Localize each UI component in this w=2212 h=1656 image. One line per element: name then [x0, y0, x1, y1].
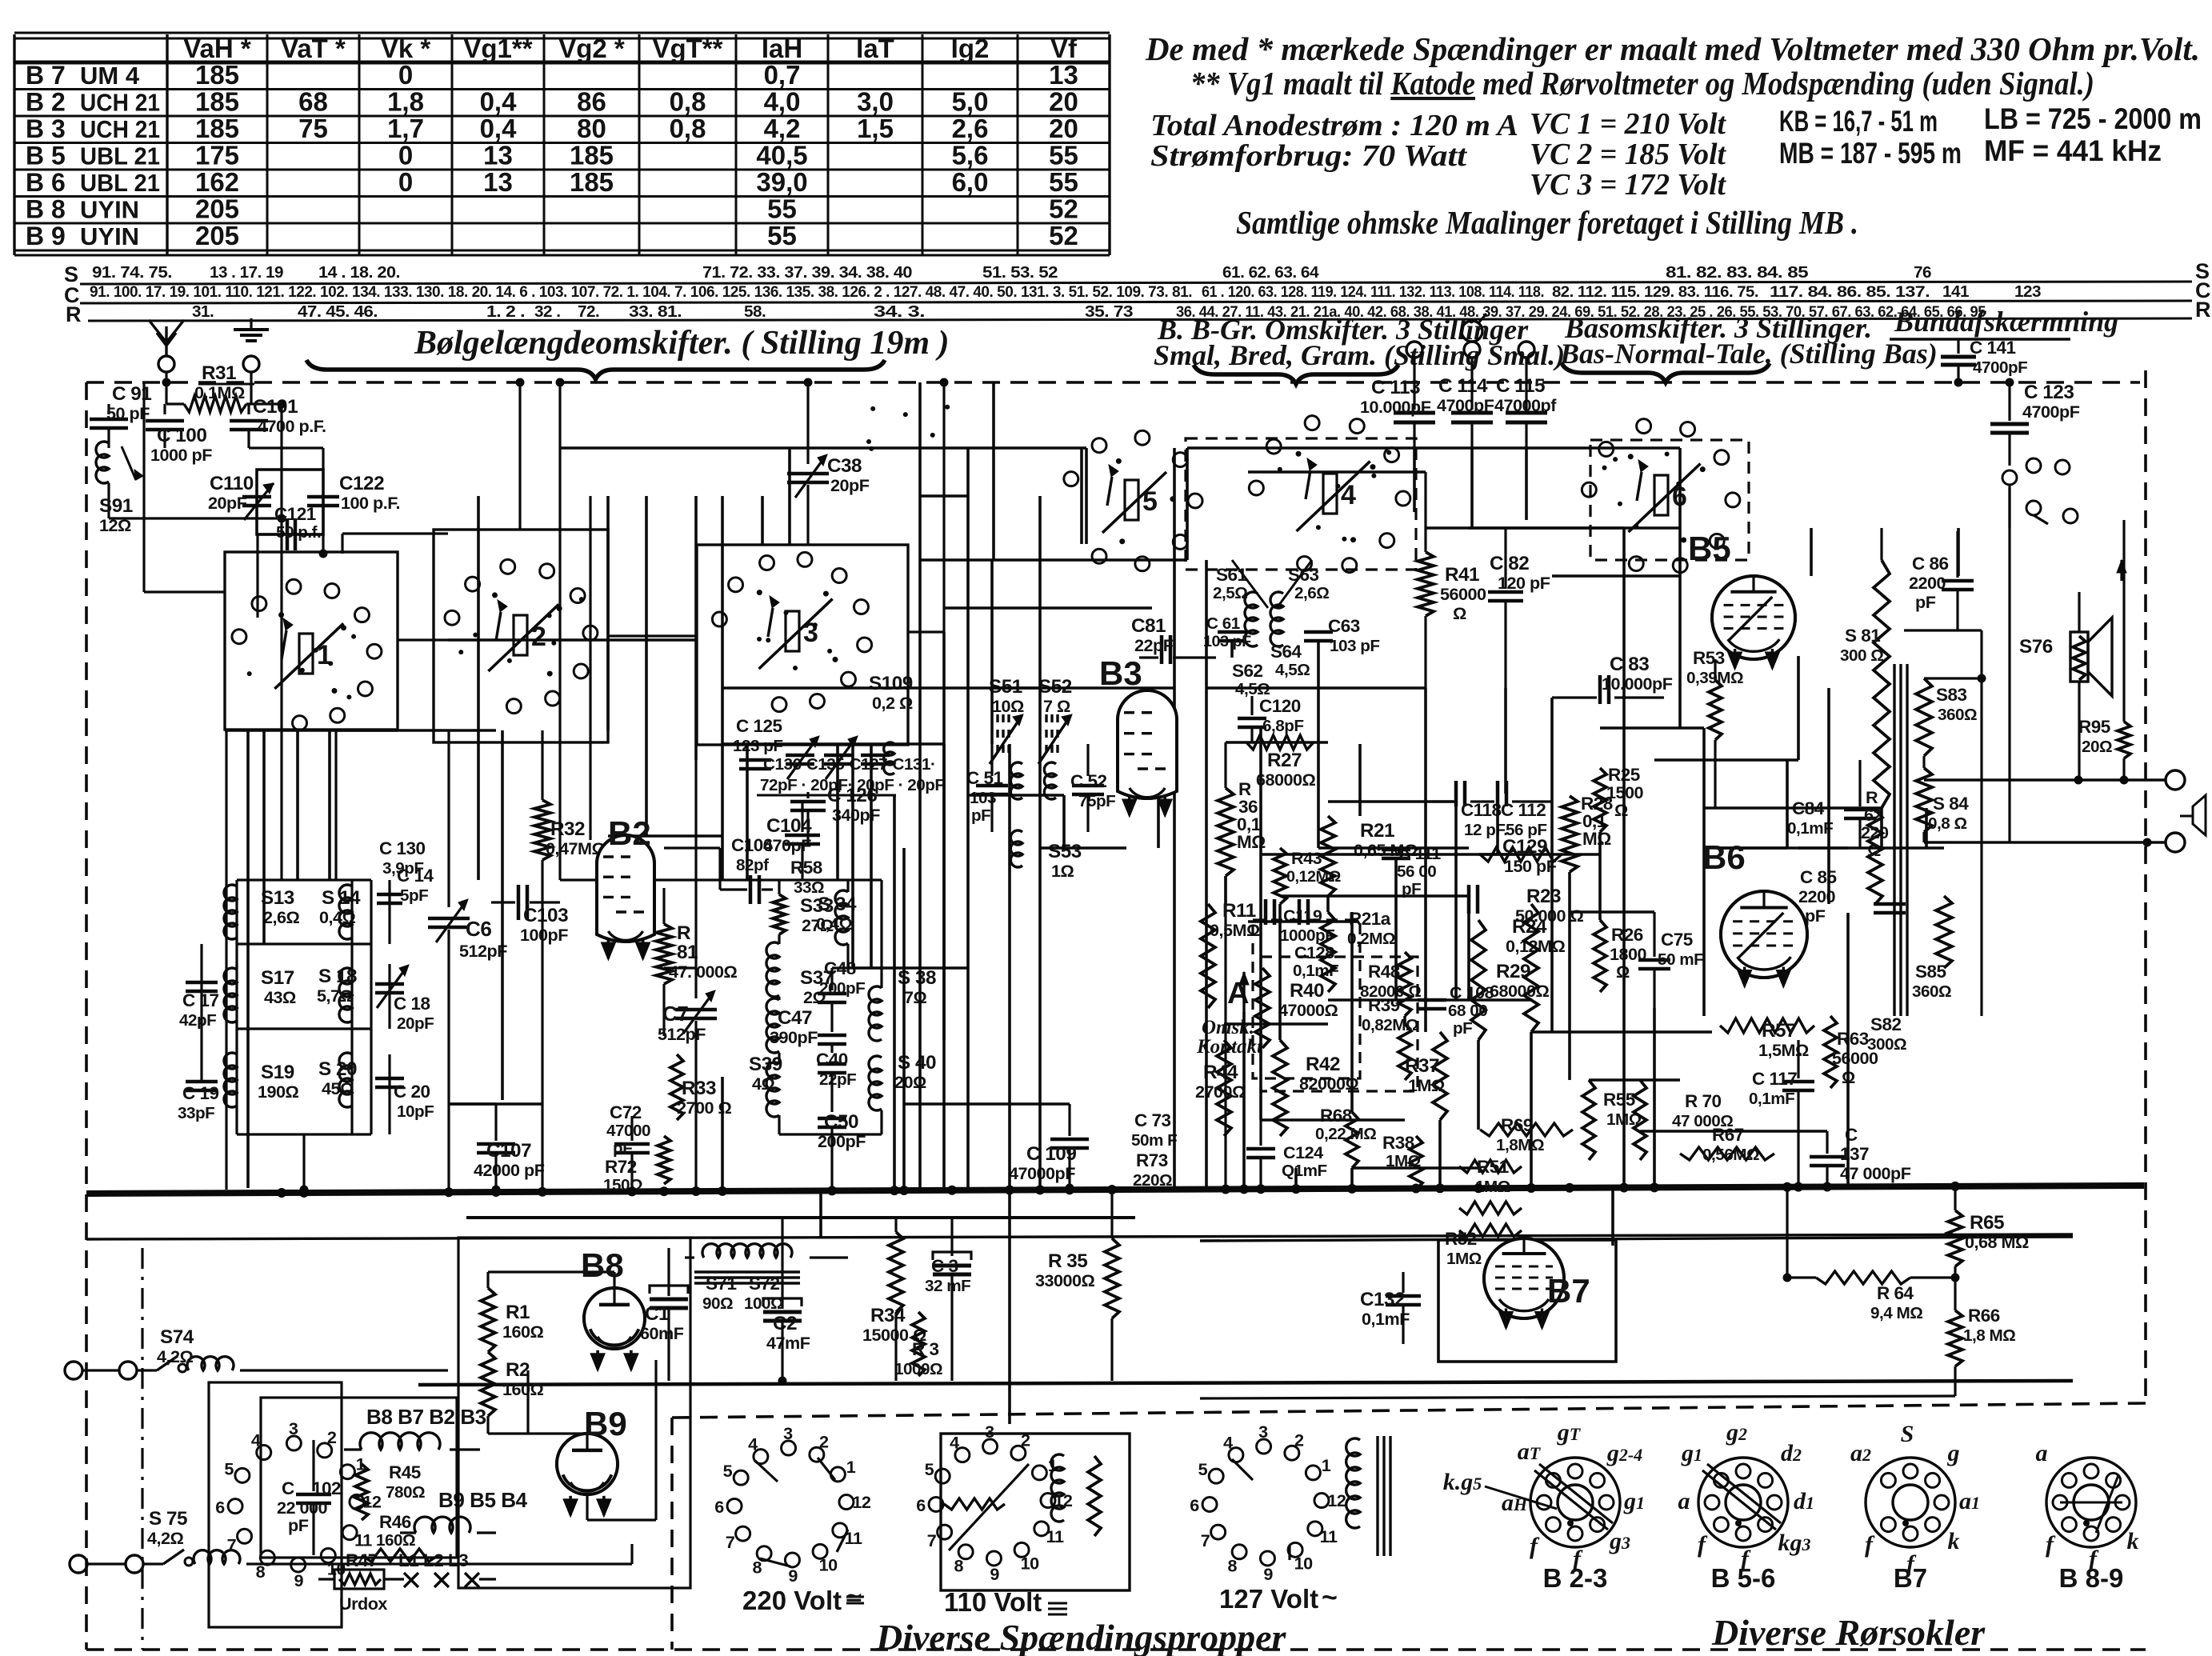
svg-text:32 .: 32 .: [534, 302, 561, 321]
svg-text:R27: R27: [1267, 750, 1302, 771]
svg-text:3: 3: [289, 1418, 298, 1438]
svg-text:R26: R26: [1611, 925, 1643, 945]
wire: [1318, 846, 1469, 850]
svg-text:0,2MΩ: 0,2MΩ: [1347, 930, 1395, 948]
resistor R45: [355, 1464, 368, 1520]
svg-text:R11: R11: [1222, 900, 1256, 922]
wire: [1173, 688, 1176, 1190]
wire: [1552, 574, 1680, 578]
wire: [448, 1102, 496, 1106]
wire: [1261, 1118, 1405, 1122]
coil S33: [766, 942, 779, 997]
svg-text:S91: S91: [99, 495, 133, 517]
gram input terminals: [1462, 321, 1482, 342]
svg-text:8: 8: [752, 1558, 762, 1578]
svg-text:160Ω: 160Ω: [502, 1379, 544, 1399]
wire: [1925, 808, 1928, 848]
wire: [144, 590, 225, 593]
svg-text:123: 123: [2014, 282, 2041, 301]
svg-text:31.: 31.: [192, 302, 214, 321]
svg-text:13: 13: [483, 167, 513, 197]
capacitor C1: [650, 1298, 688, 1302]
svg-text:60mF: 60mF: [640, 1323, 684, 1343]
svg-text:UM 4: UM 4: [80, 62, 140, 90]
tube B6: [1721, 891, 1807, 978]
coil S38: [869, 986, 882, 1041]
svg-text:R63: R63: [1837, 1029, 1869, 1049]
svg-text:4,5Ω: 4,5Ω: [1275, 661, 1310, 679]
resistor R33: [670, 1054, 683, 1120]
svg-text:pF: pF: [1915, 592, 1936, 612]
svg-text:10: 10: [819, 1554, 838, 1574]
svg-text:1,8: 1,8: [387, 87, 424, 117]
svg-text:R51: R51: [1477, 1157, 1509, 1177]
svg-text:R21: R21: [1360, 820, 1394, 842]
svg-text:81. 82. 83. 84. 85: 81. 82. 83. 84. 85: [1666, 263, 1808, 282]
coil S34: [835, 890, 848, 945]
wire: [1038, 496, 1042, 688]
svg-text:6: 6: [714, 1497, 724, 1517]
svg-text:** Vg1 maalt til Katode med Rø: ** Vg1 maalt til Katode med Rørvoltmeter…: [1190, 65, 2094, 102]
wire: [486, 1272, 489, 1288]
svg-text:C 130: C 130: [379, 838, 426, 858]
resistor R35: [1105, 1238, 1119, 1318]
rect tube B8: [584, 1288, 645, 1349]
wire: [1259, 727, 1262, 1120]
svg-text:86: 86: [577, 87, 606, 117]
wire: [1438, 1120, 1442, 1190]
wire: [1598, 832, 1602, 920]
svg-text:B8 B7 B2 B3: B8 B7 B2 B3: [366, 1405, 486, 1429]
svg-text:R41: R41: [1445, 564, 1479, 586]
svg-text:1. 2 .: 1. 2 .: [486, 302, 525, 321]
contact dots: [903, 412, 908, 417]
svg-text:55: 55: [767, 221, 797, 250]
capacitor C86: [1942, 579, 1974, 583]
wire: [1810, 528, 1813, 576]
resistor R69: [1480, 1123, 1573, 1136]
svg-text:0,2 Ω: 0,2 Ω: [872, 693, 913, 713]
capacitor C121: [286, 518, 290, 550]
svg-text:B 9: B 9: [26, 222, 66, 250]
svg-text:Total Anodestrøm : 120 m A: Total Anodestrøm : 120 m A: [1150, 109, 1518, 142]
svg-text:137: 137: [1840, 1144, 1869, 1164]
resistor R29: [1471, 920, 1486, 1040]
wire: [589, 496, 591, 840]
resistor R52 pair: [1459, 1202, 1522, 1214]
svg-text:2700Ω: 2700Ω: [1195, 1082, 1246, 1102]
svg-text:C 83: C 83: [1610, 654, 1649, 675]
resistor R28: [1562, 796, 1578, 872]
wire: [328, 729, 331, 880]
capacitor C81: [1160, 635, 1164, 664]
wire: [1242, 1012, 1246, 1190]
svg-text:11: 11: [1320, 1526, 1338, 1546]
svg-text:R73: R73: [1136, 1150, 1168, 1170]
wire: [1424, 688, 1427, 1032]
svg-text:47. 000Ω: 47. 000Ω: [669, 962, 738, 982]
svg-text:R: R: [677, 922, 691, 944]
wire: [1038, 688, 1042, 1188]
svg-text:C 73: C 73: [1134, 1110, 1171, 1130]
svg-text:205: 205: [195, 194, 239, 224]
wire: [990, 560, 994, 744]
svg-text:MF = 441 kHz: MF = 441 kHz: [1984, 134, 2162, 167]
svg-text:0,1MΩ: 0,1MΩ: [194, 382, 245, 402]
wire: [1173, 448, 1176, 688]
junction: [1239, 1184, 1249, 1194]
svg-text:B8: B8: [581, 1246, 624, 1284]
svg-text:12: 12: [1327, 1490, 1346, 1510]
capacitor C48: [818, 992, 846, 996]
svg-text:9: 9: [1263, 1564, 1273, 1584]
svg-text:11: 11: [1046, 1526, 1064, 1546]
svg-text:C 123: C 123: [2024, 382, 2074, 403]
svg-text:pF: pF: [1805, 906, 1826, 926]
capacitor C108: [1418, 998, 1446, 1002]
svg-text:1: 1: [317, 640, 332, 670]
junction: [1526, 1183, 1536, 1193]
wire: [1531, 1030, 1712, 1034]
svg-text:R40: R40: [1290, 980, 1324, 1002]
capacitor C50: [818, 1117, 846, 1121]
svg-text:k: k: [2127, 1528, 2139, 1554]
svg-text:4,2Ω: 4,2Ω: [147, 1528, 184, 1548]
tube B7: [1484, 1238, 1564, 1318]
svg-text:≃: ≃: [845, 1586, 862, 1610]
resistor R67: [1680, 1147, 1774, 1160]
wire: [606, 496, 610, 730]
svg-text:B 8: B 8: [26, 195, 66, 224]
svg-text:0,47MΩ: 0,47MΩ: [546, 838, 606, 858]
svg-text:S39: S39: [749, 1054, 782, 1075]
svg-text:R 64: R 64: [1877, 1283, 1914, 1303]
svg-text:5: 5: [224, 1458, 234, 1478]
svg-text:C107: C107: [486, 1140, 531, 1162]
wire: [778, 997, 780, 1000]
svg-text:1: 1: [846, 1457, 856, 1477]
wire: [721, 1077, 724, 1188]
tube B5 glass: [1712, 576, 1795, 659]
wire: [280, 404, 282, 518]
svg-text:33. 81.: 33. 81.: [629, 302, 682, 321]
resistor R25: [1594, 768, 1606, 832]
svg-text:127 Volt: 127 Volt: [1219, 1584, 1318, 1614]
svg-text:58.: 58.: [744, 302, 766, 321]
svg-text:117. 84. 86. 85. 137.: 117. 84. 86. 85. 137.: [1770, 283, 1930, 301]
psu box: [458, 1238, 690, 1588]
svg-text:C103: C103: [523, 905, 568, 926]
svg-text:0: 0: [398, 167, 413, 197]
wire: [779, 1133, 832, 1135]
svg-text:k: k: [1948, 1528, 1960, 1554]
wire: [256, 534, 258, 618]
svg-text:91. 74. 75.: 91. 74. 75.: [92, 263, 172, 282]
svg-text:42pF: 42pF: [179, 1011, 216, 1030]
resistor R51: [1459, 1160, 1522, 1173]
capacitor C101: [247, 404, 250, 414]
svg-text:1,5: 1,5: [857, 114, 894, 143]
svg-text:10: 10: [1294, 1553, 1314, 1573]
junction: [1650, 1182, 1659, 1192]
mains terminals S74: [65, 1362, 82, 1379]
wire: [902, 848, 906, 1188]
junction: [1474, 1183, 1483, 1193]
capacitor C102: [296, 1493, 331, 1497]
svg-text:3,0: 3,0: [857, 87, 894, 117]
svg-text:a: a: [1678, 1488, 1690, 1514]
wire: [246, 729, 250, 1188]
svg-text:2: 2: [327, 1427, 337, 1447]
svg-text:20Ω: 20Ω: [2082, 738, 2112, 756]
resistor R43: [1274, 848, 1286, 904]
svg-text:12Ω: 12Ω: [99, 515, 131, 535]
svg-text:R37: R37: [1405, 1055, 1439, 1077]
junction: [1291, 1184, 1301, 1194]
svg-text:R67: R67: [1712, 1125, 1744, 1145]
junction: [444, 1187, 454, 1197]
junction: [1435, 1183, 1445, 1193]
IF coils S61 S63: [1245, 592, 1258, 646]
svg-text:71. 72. 33. 37. 39. 34. 38. 4: 71. 72. 33. 37. 39. 34. 38. 40: [702, 263, 912, 282]
svg-text:56000: 56000: [1832, 1048, 1878, 1068]
svg-text:5,7Ω: 5,7Ω: [317, 986, 354, 1006]
svg-text:20pF: 20pF: [397, 1014, 434, 1033]
wire: [1248, 920, 1358, 923]
svg-text:R31: R31: [202, 362, 236, 384]
wire: [1062, 795, 1066, 848]
svg-text:5: 5: [1198, 1459, 1208, 1479]
B7 bus: [1200, 1237, 2073, 1241]
wire: [1040, 846, 1126, 850]
svg-text:34. 3.: 34. 3.: [874, 302, 925, 321]
wire: [1525, 448, 1528, 520]
wire: [1880, 808, 1883, 848]
resistor R57: [1720, 1018, 1814, 1033]
svg-text:C40: C40: [816, 1050, 848, 1070]
svg-text:C 100: C 100: [157, 425, 206, 446]
svg-text:160Ω: 160Ω: [376, 1531, 415, 1550]
svg-text:Vg2 *: Vg2 *: [558, 34, 625, 63]
svg-text:3,9pF: 3,9pF: [382, 859, 424, 878]
svg-text:5: 5: [1142, 486, 1158, 517]
wire: [788, 448, 791, 545]
svg-text:R45: R45: [389, 1462, 421, 1482]
svg-text:3: 3: [783, 1423, 793, 1443]
svg-text:C7: C7: [662, 1002, 688, 1026]
capacitor C72: [614, 1142, 650, 1146]
svg-text:47. 45. 46.: 47. 45. 46.: [298, 302, 378, 321]
svg-text:6: 6: [215, 1497, 225, 1517]
svg-text:360Ω: 360Ω: [1938, 706, 1977, 724]
B7 enclosure box: [1438, 1240, 1616, 1362]
tube socket B7: [1866, 1458, 1955, 1547]
wire: [1248, 470, 1426, 474]
svg-text:Ω: Ω: [1453, 603, 1466, 623]
wire: [1358, 744, 1362, 816]
svg-text:R23: R23: [1526, 886, 1561, 907]
svg-text:1,8 MΩ: 1,8 MΩ: [1963, 1326, 2015, 1345]
svg-text:C101: C101: [253, 396, 298, 418]
wire: [908, 630, 944, 633]
svg-text:S85: S85: [1915, 962, 1946, 982]
wire: [342, 532, 448, 534]
supply bus segment: [466, 1216, 1135, 1219]
svg-text:R 3: R 3: [912, 1339, 939, 1359]
svg-text:Vk *: Vk *: [381, 34, 431, 63]
resistor R42: [1273, 1040, 1287, 1136]
wire: [1226, 741, 1328, 744]
tube B7 glass: [1484, 1238, 1564, 1318]
wire: [1157, 794, 1160, 848]
resistor R34: [889, 1232, 903, 1312]
svg-text:B 7: B 7: [26, 61, 66, 90]
svg-text:6: 6: [916, 1495, 926, 1515]
svg-text:10pF: 10pF: [397, 1102, 434, 1121]
svg-text:Bundafskærmning: Bundafskærmning: [1894, 306, 2118, 338]
svg-text:R65: R65: [1970, 1212, 2004, 1234]
svg-text:C 141: C 141: [1970, 338, 2016, 358]
svg-text:4: 4: [251, 1430, 261, 1450]
svg-text:0,8 Ω: 0,8 Ω: [1928, 814, 1967, 833]
junction: [1565, 1183, 1574, 1193]
coil S51: [996, 714, 998, 722]
svg-text:72.: 72.: [578, 302, 599, 321]
svg-text:LB = 725 - 2000 m: LB = 725 - 2000 m: [1984, 102, 2202, 135]
svg-text:20: 20: [1049, 114, 1078, 143]
svg-text:Diverse Rørsokler: Diverse Rørsokler: [1711, 1612, 1986, 1653]
wire: [1454, 802, 1458, 1000]
capacitor C115: [1506, 411, 1547, 415]
wire: [1230, 642, 1234, 658]
wire: [1200, 1396, 1955, 1398]
svg-text:Diverse Spændingspropper: Diverse Spændingspropper: [875, 1617, 1287, 1656]
wire: [920, 494, 968, 498]
svg-text:R42: R42: [1306, 1054, 1340, 1075]
svg-text:pF: pF: [971, 806, 990, 825]
svg-text:B 5-6: B 5-6: [1711, 1563, 1776, 1593]
svg-text:R32: R32: [550, 818, 585, 840]
svg-text:8: 8: [954, 1556, 963, 1576]
wire: [966, 448, 970, 744]
wire: [398, 638, 448, 641]
svg-text:360Ω: 360Ω: [1912, 982, 1951, 1001]
junction: [718, 1186, 727, 1196]
wire: [1478, 853, 1600, 856]
svg-text:B7: B7: [1894, 1563, 1927, 1593]
resistor R23: [1524, 904, 1538, 1032]
svg-text:33pF: 33pF: [178, 1104, 214, 1122]
svg-text:C124: C124: [1283, 1142, 1323, 1162]
svg-text:52: 52: [1049, 194, 1078, 224]
svg-text:R46: R46: [379, 1512, 411, 1532]
resistor R32: [534, 800, 550, 860]
svg-text:S74: S74: [160, 1326, 194, 1348]
wire: [1467, 909, 1470, 1000]
capacitor C61: [1218, 630, 1246, 634]
svg-text:33000Ω: 33000Ω: [1035, 1270, 1095, 1290]
wire: [918, 382, 922, 1190]
svg-text:185: 185: [195, 114, 239, 143]
svg-text:6,8pF: 6,8pF: [1262, 717, 1304, 735]
resistor R2: [481, 1352, 495, 1416]
wire: [819, 1188, 822, 1237]
svg-text:220Ω: 220Ω: [1133, 1171, 1172, 1190]
svg-text:Bas-Normal-Tale. (Stilling Bas: Bas-Normal-Tale. (Stilling Bas): [1559, 338, 1938, 370]
svg-text:Ig2: Ig2: [951, 34, 990, 63]
svg-text:22pF: 22pF: [819, 1070, 856, 1089]
svg-text:pF: pF: [613, 1139, 632, 1158]
wire: [904, 1102, 1070, 1106]
tube B3 glass 2: [1118, 690, 1177, 798]
svg-text:UBL 21: UBL 21: [80, 169, 160, 197]
svg-text:2,6Ω: 2,6Ω: [1294, 584, 1329, 602]
capacitor C51: [976, 784, 1008, 788]
svg-text:2,6Ω: 2,6Ω: [263, 907, 300, 927]
wire: [1496, 802, 1499, 854]
svg-text:UCH 21: UCH 21: [80, 115, 160, 143]
coil S91: [96, 442, 109, 483]
svg-text:9: 9: [294, 1570, 304, 1590]
wire: [968, 794, 1064, 797]
junction: [947, 1186, 957, 1195]
svg-text:2: 2: [819, 1431, 829, 1451]
wire: [645, 496, 648, 836]
wire: [1085, 448, 1088, 544]
wire: [1786, 1186, 1788, 1278]
svg-text:Vg1**: Vg1**: [463, 34, 532, 63]
wire: [870, 745, 873, 968]
wire: [992, 686, 1174, 690]
svg-text:300 Ω: 300 Ω: [1840, 646, 1883, 665]
svg-text:11: 11: [354, 1530, 372, 1550]
svg-text:C75: C75: [1661, 930, 1693, 950]
band switch wafer 1: [225, 552, 398, 730]
wire: [586, 1494, 588, 1520]
svg-text:75: 75: [298, 114, 328, 143]
svg-text:175: 175: [195, 141, 239, 170]
resistor R27: [1246, 735, 1314, 750]
svg-text:6: 6: [1190, 1495, 1199, 1515]
svg-text:IaH: IaH: [762, 34, 802, 63]
wire: [1468, 526, 1680, 530]
svg-text:4,0: 4,0: [764, 87, 801, 117]
svg-text:14 . 18. 20.: 14 . 18. 20.: [318, 263, 400, 282]
svg-text:0,22 MΩ: 0,22 MΩ: [1315, 1125, 1376, 1143]
svg-text:C 115: C 115: [1496, 375, 1545, 397]
svg-text:S13: S13: [261, 887, 294, 909]
svg-text:56 pF: 56 pF: [1506, 821, 1547, 839]
wire: [608, 834, 722, 838]
capacitor C40: [818, 1062, 846, 1066]
svg-text:0,82MΩ: 0,82MΩ: [1362, 1016, 1418, 1034]
wire: [1477, 1040, 1480, 1130]
resistor R62: [1868, 810, 1882, 904]
svg-text:780Ω: 780Ω: [386, 1483, 425, 1502]
svg-text:50 mF: 50 mF: [1658, 950, 1703, 969]
svg-text:pF: pF: [1453, 1019, 1472, 1038]
svg-text:C136·C135·C127·C131·: C136·C135·C127·C131·: [763, 755, 935, 774]
svg-text:0: 0: [398, 60, 413, 90]
capacitor C137: [1810, 1155, 1845, 1159]
switch wafer 5: [1064, 472, 1078, 486]
svg-text:B3: B3: [1099, 654, 1142, 692]
svg-text:~: ~: [1322, 1582, 1338, 1613]
svg-text:8: 8: [256, 1562, 266, 1582]
svg-text:76: 76: [1914, 263, 1931, 282]
tube socket B8-9: [2046, 1458, 2136, 1547]
svg-text:Omsk.: Omsk.: [1202, 1017, 1254, 1038]
